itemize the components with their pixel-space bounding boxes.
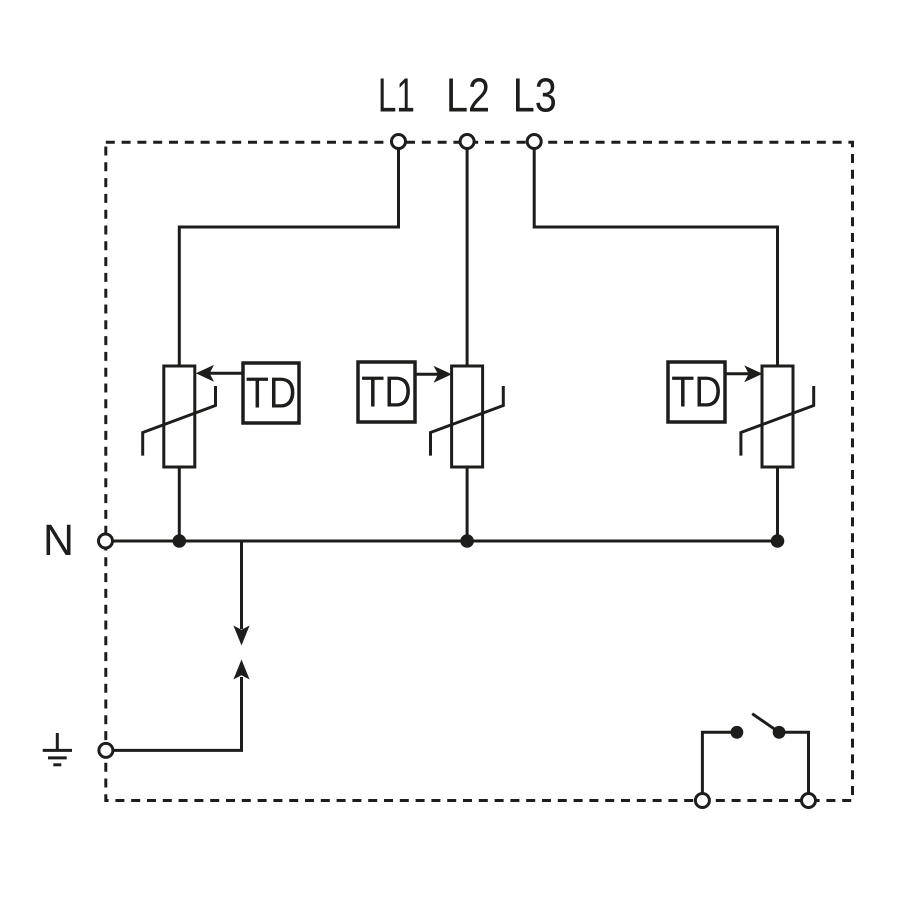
switch blade <box>752 714 779 733</box>
svg-text:L3: L3 <box>513 70 557 123</box>
node N junction dot at varistor V2 <box>460 534 474 548</box>
spark gap lower arrowhead (pointing up) <box>233 660 249 680</box>
label L1 <box>378 70 415 123</box>
label L2 <box>446 70 490 123</box>
terminal switch right <box>802 794 816 808</box>
ground symbol <box>43 733 72 765</box>
node N junction dot at varistor V1 <box>173 534 187 548</box>
switch contact dot right <box>773 726 786 739</box>
wire varistor V3 to node N <box>776 467 779 541</box>
svg-text:TD: TD <box>246 370 297 418</box>
terminal L2 <box>460 135 474 149</box>
terminal switch left <box>695 794 709 808</box>
terminal L1 <box>392 135 406 149</box>
svg-text:TD: TD <box>671 369 722 417</box>
wire varistor V1 to node N <box>178 467 181 541</box>
svg-text:L1: L1 <box>378 70 415 123</box>
varistor V1 nonlinearity stroke <box>143 386 216 456</box>
svg-text:N: N <box>43 516 74 565</box>
wire N bus to spark gap top electrode <box>240 541 243 629</box>
dashed enclosure border <box>106 142 853 800</box>
arrow TD1 to varistor V1 (pointing left) <box>196 365 243 382</box>
varistor V3 nonlinearity stroke <box>741 386 814 456</box>
wire L1 (terminal down, left, down to varistor V1) <box>179 142 398 366</box>
varistor V3 body <box>762 366 793 467</box>
wire N bus line <box>106 540 778 543</box>
node N junction dot at varistor V3 <box>771 534 785 548</box>
switch wire right leg <box>779 732 808 800</box>
terminal earth <box>99 743 113 757</box>
svg-text:L2: L2 <box>446 70 490 123</box>
wire spark gap bottom electrode down and left to earth terminal <box>106 677 242 750</box>
svg-text:TD: TD <box>361 369 412 417</box>
thermal disconnect box TD2 <box>358 362 415 422</box>
switch contact dot left <box>731 726 744 739</box>
arrow TD2 to varistor V2 (pointing right) <box>415 366 452 383</box>
wire varistor V2 to node N <box>466 468 469 541</box>
thermal disconnect box TD1 <box>243 363 299 423</box>
terminal L3 <box>527 135 541 149</box>
varistor V2 body <box>452 366 483 467</box>
wire L2 (terminal straight down to varistor V2) <box>466 142 469 367</box>
spark gap upper arrowhead (pointing down) <box>233 626 249 646</box>
arrow TD3 to varistor V3 (pointing right) <box>725 365 763 382</box>
wire L3 (terminal down, right, down to varistor V3) <box>534 142 777 366</box>
thermal disconnect box TD3 <box>668 362 725 422</box>
switch wire left leg <box>702 732 731 800</box>
label L3 <box>513 70 557 123</box>
varistor V1 body <box>164 366 195 467</box>
terminal N <box>99 534 113 548</box>
label N <box>43 516 74 565</box>
varistor V2 nonlinearity stroke <box>431 386 504 456</box>
